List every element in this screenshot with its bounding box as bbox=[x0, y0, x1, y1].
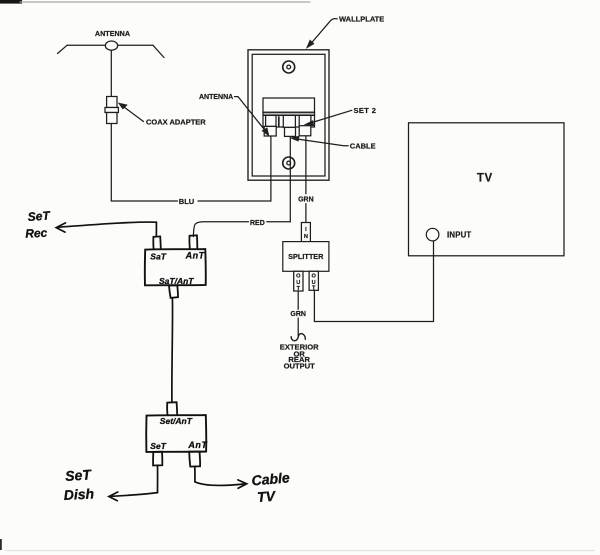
coax adapter leader arrow bbox=[119, 104, 143, 122]
svg-text:WALLPLATE: WALLPLATE bbox=[339, 14, 384, 23]
jack antenna (left) bbox=[266, 115, 276, 126]
scan artifact: faint top line bbox=[20, 1, 310, 3]
diplexer U1 box bbox=[145, 249, 206, 285]
svg-text:BLU: BLU bbox=[179, 197, 194, 206]
diplexer U1 port SAT/ANT (bottom) bbox=[169, 285, 178, 298]
svg-text:GRN: GRN bbox=[290, 311, 306, 318]
scan artifact: top-left black bar bbox=[0, 0, 22, 4]
scan artifact: faint bottom line bbox=[6, 550, 594, 552]
label EXTERIOR OR REAR OUTPUT bbox=[280, 343, 319, 371]
hook connector end bbox=[291, 334, 305, 341]
svg-text:OUTPUT: OUTPUT bbox=[284, 361, 316, 370]
svg-text:SaT/AnT: SaT/AnT bbox=[159, 276, 194, 286]
svg-text:Dish: Dish bbox=[63, 485, 94, 503]
antenna symbol bbox=[58, 41, 165, 58]
wire splitter out-right to TV input bbox=[314, 241, 433, 322]
wire U2 ANT down to Cable TV bbox=[194, 466, 196, 481]
jack block body bbox=[263, 98, 315, 112]
svg-text:Rec: Rec bbox=[25, 226, 48, 241]
svg-text:SET 2: SET 2 bbox=[354, 106, 377, 115]
wire RED to wallplate cable jack bbox=[267, 221, 291, 223]
svg-text:COAX ADAPTER: COAX ADAPTER bbox=[146, 117, 206, 126]
wire antenna to coax adapter bbox=[110, 50, 112, 96]
leader cable jack bbox=[292, 136, 349, 145]
wire splitter out-left down bbox=[297, 291, 299, 309]
wire coax adapter down (BLU run) bbox=[110, 124, 112, 202]
svg-text:SaT: SaT bbox=[150, 251, 166, 261]
svg-text:ANTENNA: ANTENNA bbox=[95, 29, 130, 38]
splitter OUT port right bbox=[309, 271, 318, 290]
leader wallplate bbox=[307, 19, 337, 48]
wire U2 SAT down to Set Dish bbox=[157, 466, 159, 493]
diplexer U2 port SAT/ANT (top) bbox=[167, 402, 177, 415]
arrowhead Set Dish bbox=[109, 492, 118, 501]
svg-text:O: O bbox=[296, 274, 301, 280]
svg-text:AnT: AnT bbox=[187, 440, 208, 450]
wire U1 SAT up bbox=[155, 222, 157, 236]
svg-text:TV: TV bbox=[477, 173, 493, 185]
divider tick bbox=[278, 117, 280, 126]
IN port letters bbox=[304, 227, 308, 240]
jack cable (middle) bbox=[283, 115, 295, 127]
splitter IN port bbox=[301, 223, 310, 242]
svg-text:CABLE: CABLE bbox=[350, 142, 376, 151]
splitter box bbox=[283, 242, 329, 272]
leader antenna jack bbox=[235, 97, 269, 136]
svg-text:INPUT: INPUT bbox=[447, 230, 471, 239]
diplexer U2 port SAT (bottom-left) bbox=[153, 452, 162, 466]
wire RED horizontal bbox=[193, 222, 248, 237]
wallplate inner frame bbox=[252, 54, 325, 176]
arrowhead Set Rec bbox=[56, 223, 65, 232]
wire U1 to U2 bbox=[171, 298, 174, 402]
wallplate outer frame bbox=[248, 50, 329, 180]
wire arrow to Set Rec bbox=[59, 222, 157, 227]
svg-text:N: N bbox=[304, 234, 308, 240]
svg-text:SeT: SeT bbox=[27, 208, 52, 224]
connector antenna (left) bbox=[264, 126, 276, 136]
svg-text:SPLITTER: SPLITTER bbox=[288, 252, 324, 261]
connector cable (middle) bbox=[285, 127, 296, 136]
screw top bbox=[283, 61, 295, 73]
wire GRN wallplate to splitter bbox=[305, 136, 307, 194]
svg-text:AnT: AnT bbox=[185, 251, 206, 261]
scan artifact: bottom-left mark bbox=[0, 539, 2, 550]
jack block band bbox=[263, 112, 315, 115]
svg-text:SeT: SeT bbox=[150, 441, 166, 451]
diplexer U1 port ANT (top-right) bbox=[189, 235, 197, 248]
splitter OUT port left bbox=[294, 271, 303, 291]
svg-text:RED: RED bbox=[250, 220, 265, 227]
screw bottom bbox=[283, 157, 295, 169]
arrowhead Cable TV bbox=[238, 480, 247, 488]
diplexer U2 box bbox=[146, 415, 206, 452]
wire BLU up to wallplate antenna jack bbox=[270, 136, 272, 201]
wire BLU horizontal bbox=[111, 200, 177, 202]
diplexer U1 port SAT (top-left) bbox=[153, 236, 160, 249]
svg-text:ANTENNA: ANTENNA bbox=[199, 94, 233, 101]
leader set2 jack bbox=[306, 110, 352, 125]
svg-text:TV: TV bbox=[257, 488, 278, 505]
TV input connector bbox=[426, 228, 439, 241]
svg-text:SeT: SeT bbox=[65, 466, 93, 484]
coax adapter bbox=[105, 97, 118, 124]
svg-text:Cable: Cable bbox=[251, 469, 291, 488]
jack set2 (right) bbox=[299, 115, 311, 126]
svg-text:GRN: GRN bbox=[298, 196, 314, 203]
jack block lower row bbox=[263, 115, 315, 127]
connector set2 (right) bbox=[299, 126, 311, 136]
diplexer U2 port ANT (bottom-right) bbox=[189, 452, 200, 467]
svg-text:O: O bbox=[312, 274, 317, 280]
svg-text:Set/AnT: Set/AnT bbox=[160, 416, 193, 426]
TV box bbox=[409, 123, 565, 256]
